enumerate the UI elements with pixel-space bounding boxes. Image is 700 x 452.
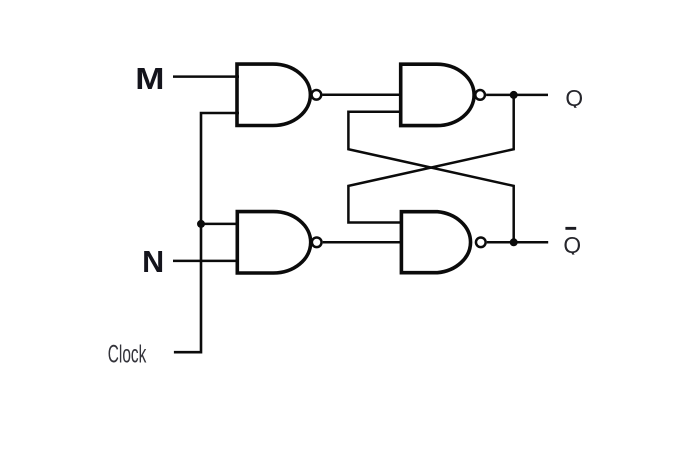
nand gate U2 <box>401 64 474 125</box>
wire U1 output to gate U2 input 1 <box>322 94 400 97</box>
nand gate U4 <box>401 212 470 273</box>
nand gate U1 <box>237 64 310 125</box>
wire U2 output to Q <box>486 94 548 97</box>
white trim of Q-bar descender tail <box>566 255 586 261</box>
wire U3 output to gate U4 input 2 <box>323 241 402 244</box>
inverter bubble U3 <box>312 237 322 247</box>
nand gate U3 <box>237 212 310 273</box>
svg-text:M: M <box>135 61 164 95</box>
inverter bubble U2 <box>475 90 485 100</box>
node junction Q feedback <box>510 91 518 99</box>
svg-text:Q: Q <box>565 85 583 111</box>
wire N to gate U3 input 2 <box>173 260 239 263</box>
inverter bubble U1 <box>312 90 322 100</box>
svg-text:Clock: Clock <box>108 341 147 369</box>
wire M to gate U1 input 1 <box>173 75 239 78</box>
white trim of Q descender tail <box>566 108 586 114</box>
wire clock vertical to gate U1 input 2 <box>174 113 239 352</box>
svg-text:Q: Q <box>563 232 581 258</box>
svg-text:N: N <box>142 245 164 279</box>
inverter bubble U4 <box>476 237 486 247</box>
overbar of Q-bar <box>565 227 576 230</box>
wire clock junction to gate U3 input 1 <box>201 223 239 226</box>
node junction clock to U3 <box>197 220 205 228</box>
wire feedback from Q-bar to gate U2 input 2 <box>348 112 513 243</box>
node junction Q-bar feedback <box>510 238 518 246</box>
wire U4 output to Q-bar <box>487 241 548 244</box>
wire feedback from Q to gate U4 input 1 <box>348 95 513 223</box>
